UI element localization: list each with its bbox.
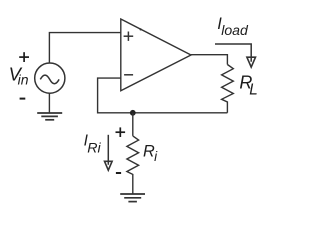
svg-text:in: in bbox=[18, 72, 29, 88]
polarity + (Vin) bbox=[19, 52, 29, 62]
sine symbol inside source bbox=[40, 75, 59, 84]
op-amp + input marking bbox=[124, 32, 134, 41]
ground (under Ri) bbox=[120, 194, 145, 202]
voltage source Vin bbox=[35, 63, 65, 93]
resistor RL bbox=[222, 65, 234, 113]
wire - input feedback to bottom rail bbox=[98, 78, 228, 113]
polarity + (Ri) bbox=[116, 127, 126, 137]
svg-text:L: L bbox=[249, 82, 258, 99]
resistor Ri bbox=[127, 136, 139, 194]
current arrow Iload bbox=[215, 44, 251, 62]
node on op-amp top edge bbox=[140, 28, 142, 30]
svg-text:load: load bbox=[221, 22, 249, 38]
op-amp U1 bbox=[121, 19, 191, 91]
wire junction to resistor Ri bbox=[132, 113, 134, 136]
polarity - (Vin) bbox=[20, 98, 26, 100]
ground (under Vin) bbox=[37, 113, 62, 120]
svg-text:i: i bbox=[154, 149, 158, 164]
op-amp - input marking bbox=[124, 74, 133, 76]
node junction bbox=[130, 110, 136, 116]
wire Vin top to op-amp + input bbox=[49, 33, 120, 64]
wire Vin bottom to ground bbox=[48, 93, 50, 113]
polarity - (Ri) bbox=[116, 172, 121, 174]
wire op-amp output bbox=[191, 55, 227, 65]
current arrow IRi bbox=[107, 135, 109, 165]
svg-text:Ri: Ri bbox=[87, 141, 101, 157]
